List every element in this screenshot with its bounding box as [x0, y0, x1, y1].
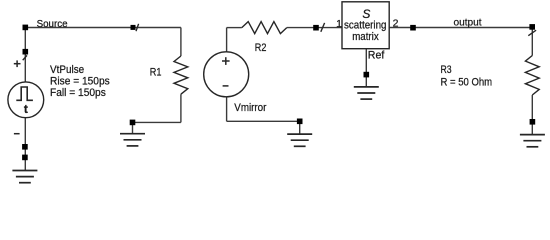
svg-text:R2: R2	[255, 42, 267, 54]
svg-text:matrix: matrix	[352, 31, 379, 43]
svg-text:t: t	[24, 102, 28, 116]
svg-text:Vmirror: Vmirror	[234, 102, 266, 114]
svg-text:Ref: Ref	[368, 49, 385, 61]
svg-text:Rise = 150ps: Rise = 150ps	[50, 76, 110, 88]
svg-text:R = 50 Ohm: R = 50 Ohm	[441, 76, 493, 88]
svg-text:VtPulse: VtPulse	[50, 64, 84, 76]
svg-text:scattering: scattering	[344, 19, 387, 31]
svg-text:Source: Source	[37, 18, 68, 30]
svg-text:R3: R3	[441, 64, 452, 76]
svg-text:output: output	[454, 17, 482, 29]
svg-text:2: 2	[393, 18, 399, 30]
svg-text:1: 1	[336, 18, 342, 30]
svg-text:R1: R1	[150, 67, 162, 79]
svg-text:Fall = 150ps: Fall = 150ps	[50, 87, 106, 99]
